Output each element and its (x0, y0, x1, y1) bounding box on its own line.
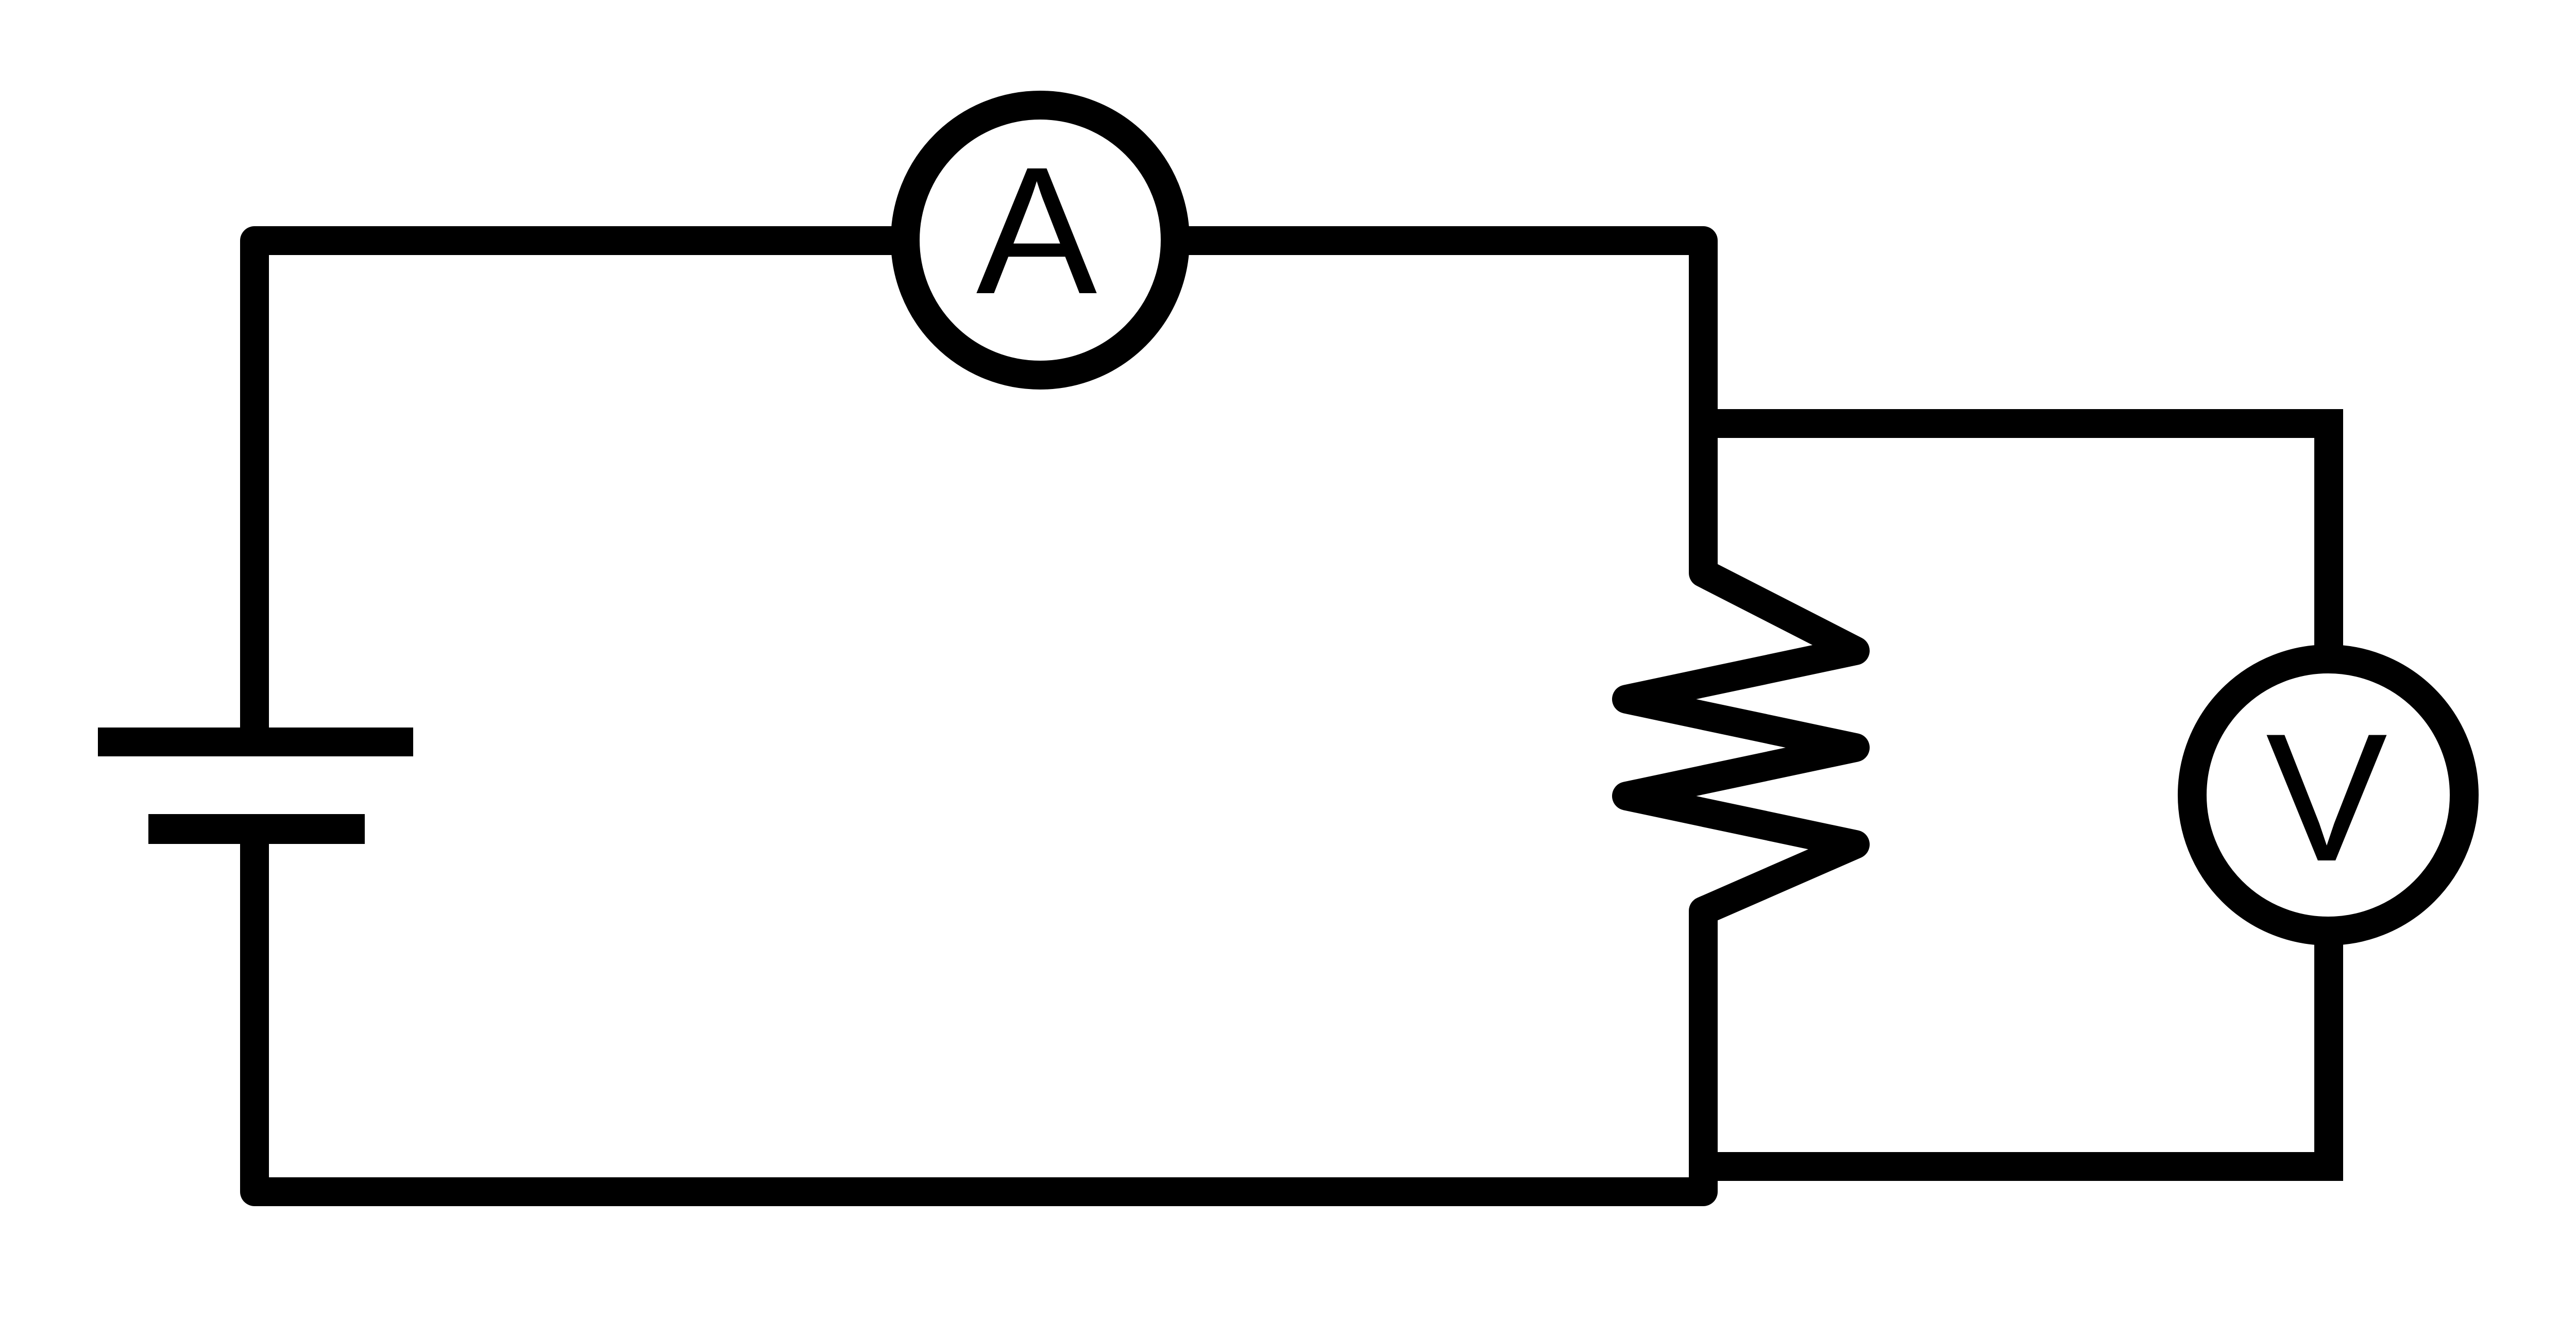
ammeter A1 label A (976, 129, 1098, 332)
battery B1 long plate (positive) (98, 728, 413, 756)
wire battery positive terminal up, across top, down to resistor top (255, 241, 1703, 728)
ammeter A1 circle (905, 105, 1175, 375)
voltmeter V1 label V (2266, 696, 2388, 900)
resistor R1 zigzag (1626, 541, 1855, 927)
battery B1 short plate (negative) (148, 814, 365, 844)
wire resistor bottom, across bottom, up to battery negative terminal (255, 843, 1703, 1192)
svg-text:A: A (976, 129, 1098, 332)
wire voltmeter parallel branch (1703, 424, 2329, 1166)
voltmeter V1 circle (2192, 659, 2464, 931)
svg-text:V: V (2266, 696, 2388, 900)
